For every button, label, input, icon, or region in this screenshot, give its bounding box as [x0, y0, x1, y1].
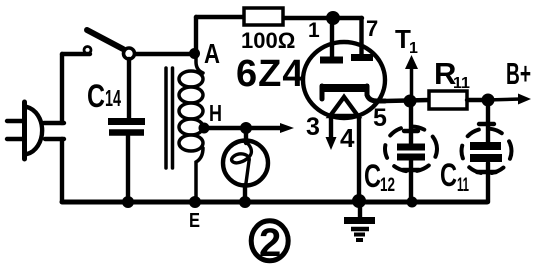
svg-text:4: 4 — [340, 123, 355, 153]
svg-text:A: A — [204, 38, 220, 69]
svg-text:1: 1 — [308, 19, 320, 42]
svg-text:6Z4: 6Z4 — [236, 53, 304, 95]
svg-text:H: H — [209, 100, 222, 126]
svg-text:11: 11 — [453, 75, 470, 92]
svg-text:B+: B+ — [506, 56, 531, 91]
svg-text:C: C — [440, 157, 457, 193]
svg-text:C: C — [87, 78, 105, 114]
svg-text:14: 14 — [105, 85, 121, 111]
svg-text:7: 7 — [366, 16, 378, 41]
svg-text:E: E — [189, 210, 200, 232]
svg-text:3: 3 — [306, 113, 320, 141]
svg-text:5: 5 — [373, 104, 387, 132]
svg-text:C: C — [364, 158, 381, 194]
svg-text:12: 12 — [380, 175, 395, 196]
svg-text:2: 2 — [259, 221, 281, 265]
svg-text:11: 11 — [457, 175, 469, 196]
svg-text:100Ω: 100Ω — [241, 28, 295, 53]
svg-text:1: 1 — [409, 40, 418, 57]
